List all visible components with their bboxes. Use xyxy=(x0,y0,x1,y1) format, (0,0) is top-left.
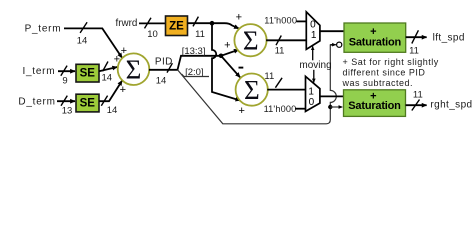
svg-text:11'h000: 11'h000 xyxy=(264,104,297,114)
svg-text:Saturation: Saturation xyxy=(349,37,402,49)
svg-text:different since PID: different since PID xyxy=(343,68,426,78)
wire [13:3] to summer U1 xyxy=(221,50,239,56)
svg-text:rght_spd: rght_spd xyxy=(430,100,472,111)
svg-text:+: + xyxy=(114,54,120,66)
svg-text:13: 13 xyxy=(62,106,73,117)
node junction PID[13:3] xyxy=(219,54,224,59)
wire select moving into mux M2 xyxy=(313,70,315,83)
mux M2 (right speed) xyxy=(306,76,320,111)
summer U0 (PID adder) xyxy=(118,53,150,85)
mux M1 (left speed) xyxy=(306,12,320,50)
svg-text:[13:3]: [13:3] xyxy=(182,46,206,57)
svg-text:was subtracted.: was subtracted. xyxy=(342,78,414,88)
svg-text:P_term: P_term xyxy=(25,24,62,35)
bus slash P_term 14 xyxy=(80,22,87,33)
bus slash 11 xyxy=(276,36,281,46)
node junction feedback to right saturation xyxy=(328,105,332,109)
svg-text:+: + xyxy=(224,40,230,52)
svg-text:14: 14 xyxy=(107,105,118,116)
svg-text:1: 1 xyxy=(308,86,314,97)
svg-text:Σ: Σ xyxy=(126,55,142,85)
bus slash lft 11 xyxy=(412,30,419,43)
wire 11'h000 to mux M1 xyxy=(297,20,307,22)
wire SE to summer (D) xyxy=(99,81,122,102)
bus slash 11 xyxy=(275,78,282,88)
wire U2 output to mux M2 xyxy=(267,89,305,91)
wire lft_spd output xyxy=(406,36,427,38)
saturation block (right) xyxy=(344,90,406,117)
node junction frwrd xyxy=(210,21,215,26)
minus sign [13:3] into U2 xyxy=(239,67,244,69)
svg-text:I_term: I_term xyxy=(22,66,55,77)
svg-text:ZE: ZE xyxy=(169,21,184,33)
svg-text:+: + xyxy=(238,105,244,117)
saturation block (left) xyxy=(344,23,406,52)
svg-text:lft_spd: lft_spd xyxy=(433,33,465,44)
svg-text:11'h000: 11'h000 xyxy=(264,16,297,26)
bus slash rght 11 xyxy=(412,100,420,111)
svg-text:frwrd: frwrd xyxy=(116,18,138,29)
summer U1 (left speed adder) xyxy=(234,24,266,56)
sign-extend SE (I path) xyxy=(76,64,99,82)
wire feedback into right saturation xyxy=(330,106,342,108)
wire arrow into saturation bubble xyxy=(330,44,336,46)
svg-text:0: 0 xyxy=(310,20,316,31)
svg-text:11: 11 xyxy=(413,90,423,101)
svg-text:SE: SE xyxy=(80,68,96,80)
svg-text:11: 11 xyxy=(195,29,205,40)
svg-text:9: 9 xyxy=(62,75,67,86)
wire I_term to SE xyxy=(58,70,75,72)
svg-text:moving: moving xyxy=(299,60,331,71)
node PID output wire xyxy=(149,69,178,71)
svg-text:1: 1 xyxy=(311,30,317,41)
svg-text:Σ: Σ xyxy=(244,75,260,105)
svg-text:PID: PID xyxy=(155,56,173,67)
wire select moving into mux M1 xyxy=(312,46,314,60)
zero-extend ZE xyxy=(166,16,188,36)
wire U1 output to mux M1 xyxy=(266,39,306,41)
wire mux M1 to left saturation xyxy=(320,30,344,32)
bus slash I 14 xyxy=(103,62,108,72)
svg-text:11: 11 xyxy=(264,71,274,82)
svg-text:Saturation: Saturation xyxy=(348,100,401,112)
svg-text:D_term: D_term xyxy=(18,96,55,107)
wire 11'h000 to mux M2 xyxy=(295,108,306,110)
svg-text:0: 0 xyxy=(309,97,315,108)
summer U2 (right speed adder) xyxy=(236,74,268,106)
svg-text:SE: SE xyxy=(80,98,96,110)
wire D_term to SE xyxy=(57,100,75,102)
svg-text:14: 14 xyxy=(102,73,113,84)
svg-text:11: 11 xyxy=(275,45,285,56)
svg-text:10: 10 xyxy=(147,29,158,40)
wire frwrd to ZE xyxy=(139,22,166,24)
svg-text:14: 14 xyxy=(77,36,88,47)
bus slash frwrd 11 xyxy=(193,17,198,27)
wire PID[13:3] branch xyxy=(178,56,222,70)
wire P_term to summer xyxy=(64,28,122,58)
bus slash I_term 9 xyxy=(61,66,67,76)
bus slash frwrd 10 xyxy=(145,18,152,29)
sign-extend SE (D path) xyxy=(76,94,99,112)
wire SE to summer (I) xyxy=(99,67,117,71)
wire PID sign feedback (down, around bottom, up to saturators) xyxy=(178,45,337,124)
bubble on left saturation input xyxy=(337,42,342,47)
wire frwrd down to summer U2 (with hop over [13:3]) xyxy=(212,23,240,100)
svg-text:14: 14 xyxy=(156,75,167,86)
wire [13:3] to summer U2 xyxy=(221,56,240,78)
wire rght_spd output xyxy=(406,104,427,106)
bus slash D_term 13 xyxy=(61,96,67,106)
bus slash D 14 xyxy=(101,96,107,106)
svg-text:+: + xyxy=(121,45,127,57)
svg-text:+: + xyxy=(120,84,126,96)
svg-text:+ Sat for right slightly: + Sat for right slightly xyxy=(343,57,439,67)
wire [2:0] label connector xyxy=(182,74,209,77)
svg-text:Σ: Σ xyxy=(243,26,259,56)
svg-text:11: 11 xyxy=(409,45,419,56)
bus slash PID 14 xyxy=(167,63,172,72)
wire ZE to junction and summer U1 xyxy=(188,23,239,28)
svg-text:+: + xyxy=(236,11,242,23)
wire mux M2 to right saturation xyxy=(320,95,344,97)
